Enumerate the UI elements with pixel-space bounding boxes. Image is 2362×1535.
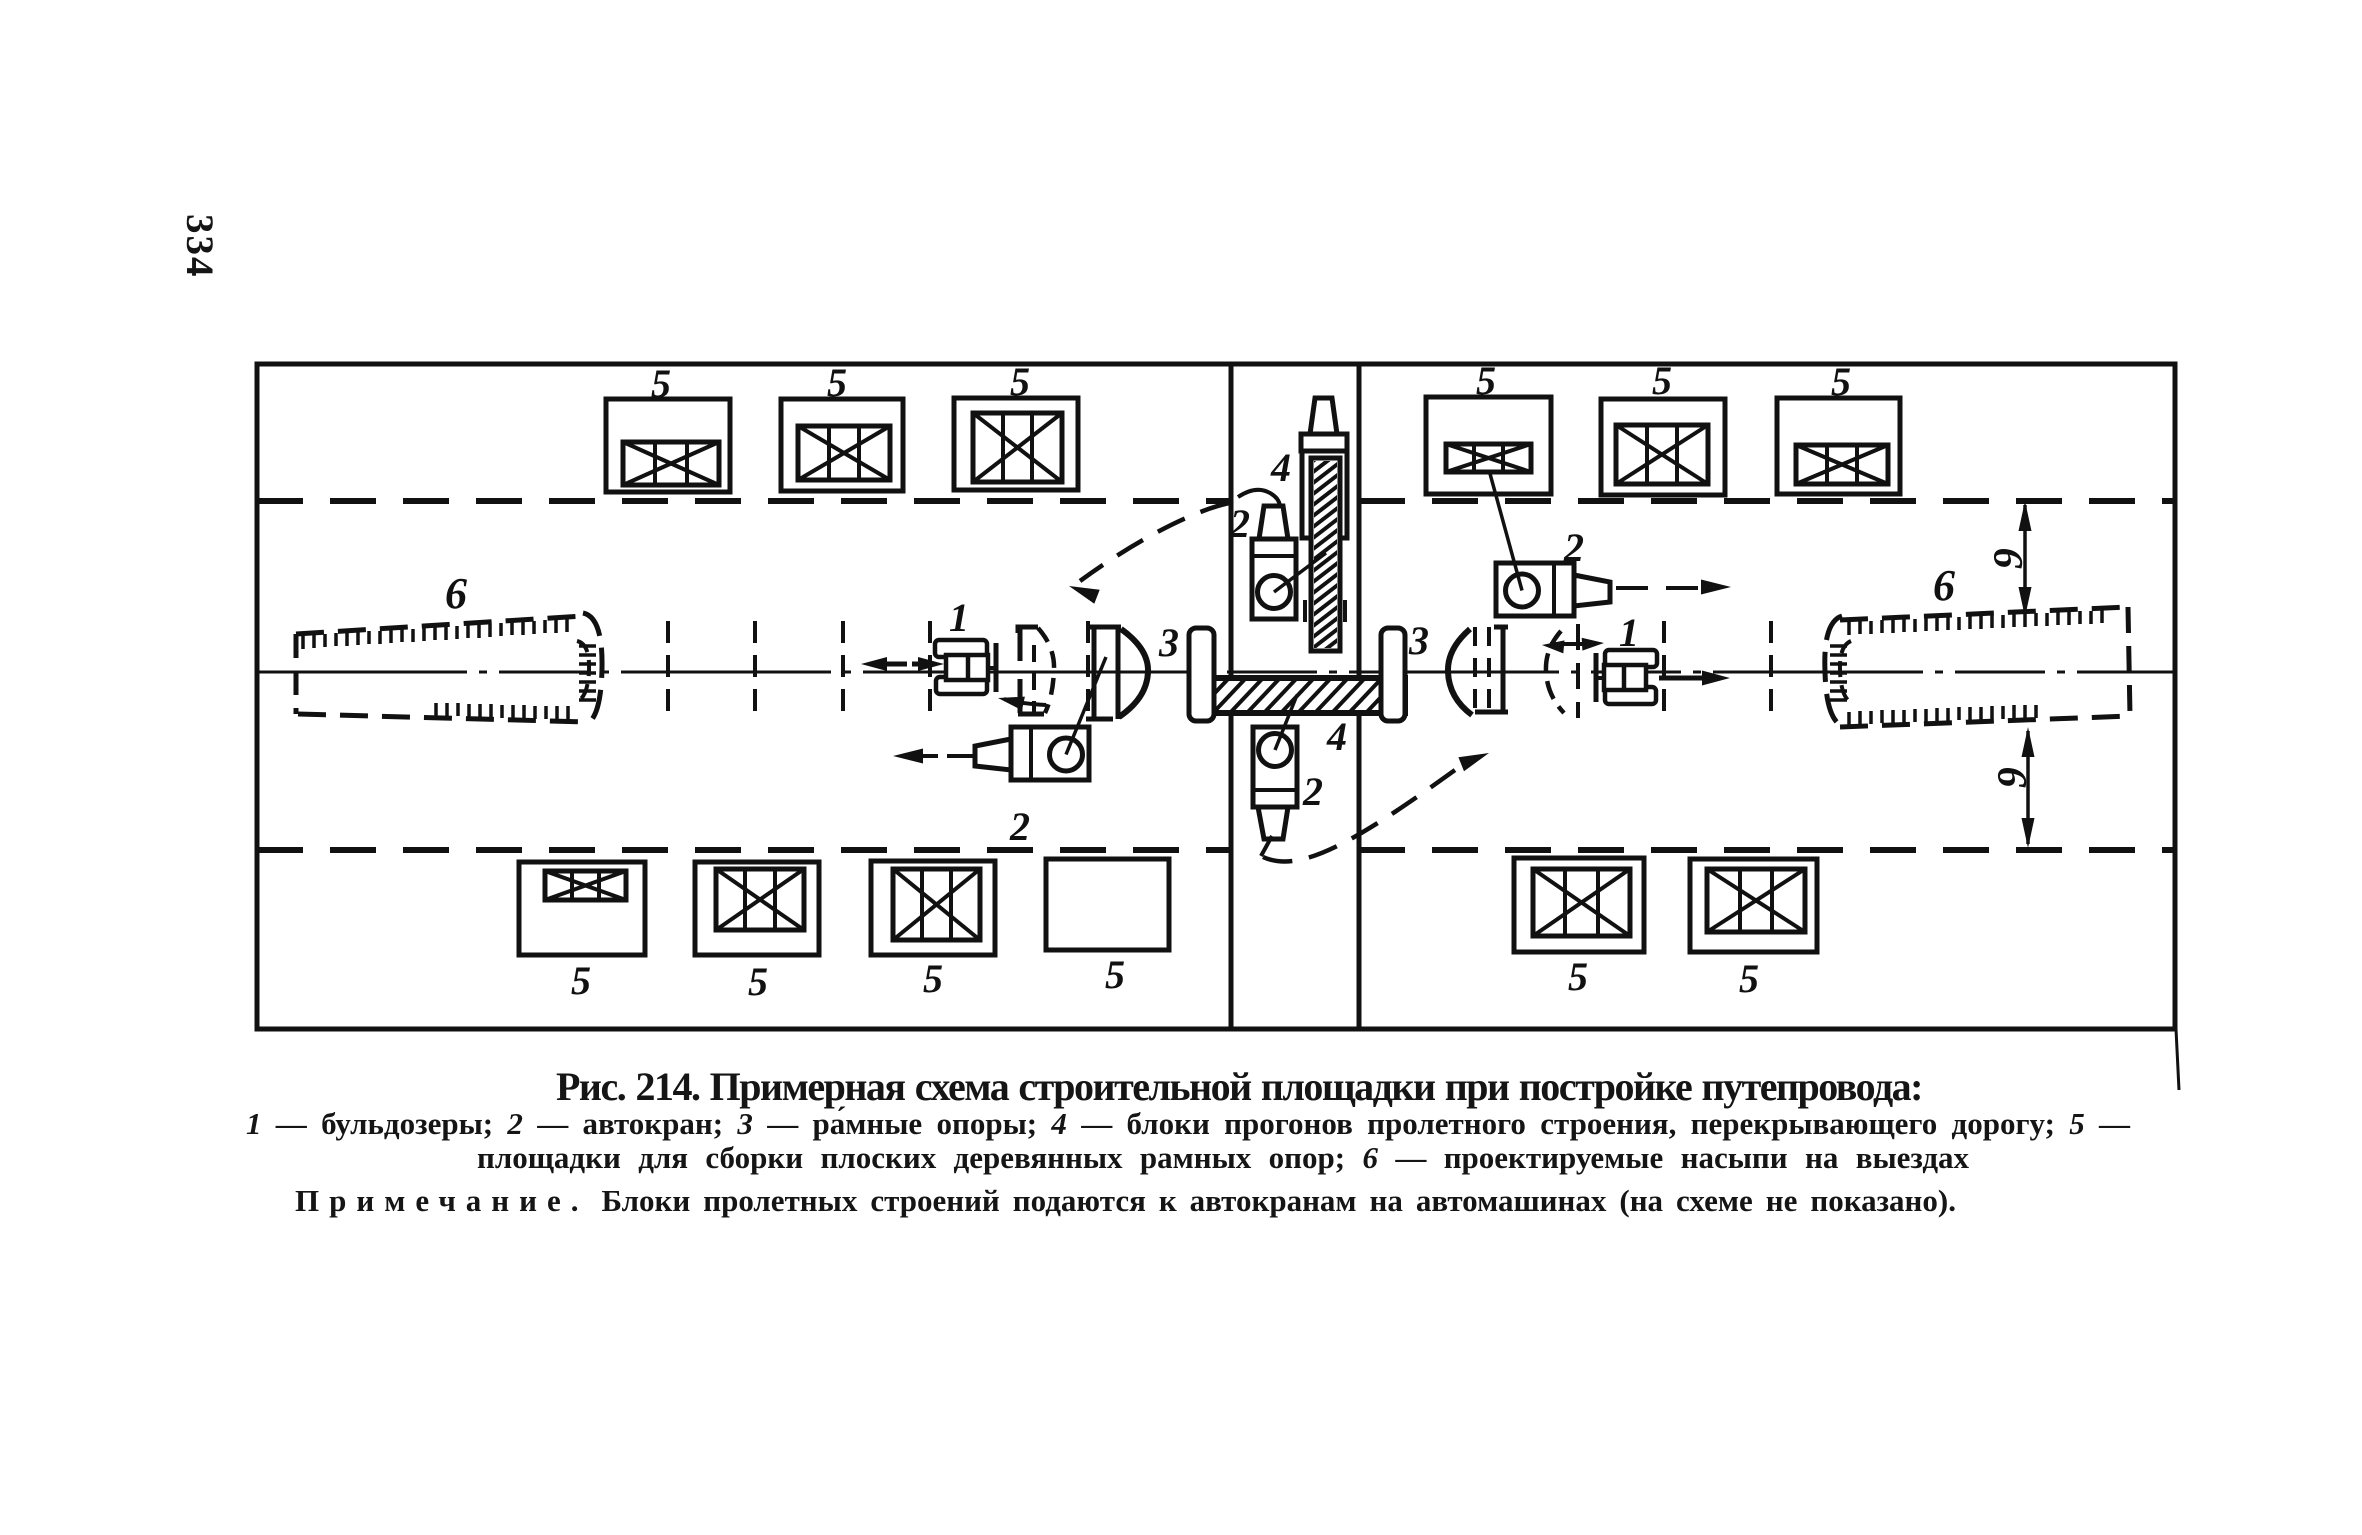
svg-text:5: 5 (1010, 359, 1030, 404)
frame support 3 (left of road) (1189, 628, 1214, 721)
svg-text:4: 4 (1326, 714, 1347, 759)
leader line left crane to support shape (1066, 657, 1106, 755)
assembly pad 5 (top-right 1) (1426, 397, 1551, 494)
road axis centerline dash-dot (257, 671, 2175, 674)
assembly pad 5 (top-right 2) (1601, 399, 1725, 495)
station tick 5 (1086, 621, 1090, 712)
station tick 2 (753, 621, 757, 712)
svg-text:5: 5 (1568, 954, 1588, 999)
main road top edge dashed (left segment) (257, 498, 1231, 504)
note line (295, 1183, 1956, 1219)
svg-text:3: 3 (1408, 618, 1429, 663)
svg-text:6: 6 (1984, 548, 2030, 569)
crossing road right edge (wire) (1357, 364, 1362, 1029)
svg-text:4: 4 (1270, 445, 1291, 490)
dimension arrow 6 m (upper) (2019, 501, 2032, 617)
truck crane 2 (left, pointing left) (975, 727, 1089, 780)
drag arrow to bulldozer (left, hooked) (998, 697, 1046, 711)
bulldozer 1 (right) (1596, 650, 1657, 704)
left bulldozer push arrows (861, 657, 944, 671)
assembly pad 5 (bottom-right 1) (1514, 858, 1644, 952)
svg-text:6: 6 (445, 569, 467, 618)
svg-text:2: 2 (1009, 804, 1030, 849)
svg-text:5: 5 (827, 360, 847, 405)
svg-text:5: 5 (1831, 359, 1851, 404)
main road bottom edge dashed (left segment) (257, 847, 1231, 853)
lower middle crane hook tail (1261, 836, 1272, 856)
frame right edge overshoot (2176, 1029, 2179, 1090)
frame support 3 (right of road) (1381, 628, 1405, 721)
main road bottom edge dashed (right segment) (1359, 847, 2175, 853)
svg-text:5: 5 (923, 956, 943, 1001)
svg-text:3: 3 (1158, 620, 1179, 665)
embankment 6 (right exit ramp, dashed with hachures) (1825, 607, 2130, 727)
svg-text:5: 5 (571, 958, 591, 1003)
girder block 4 (transverse beam across road) (1178, 678, 1450, 714)
crossing road left edge (wire) (1229, 364, 1234, 1029)
embankment 6 (left exit ramp, dashed with hachures) (296, 613, 602, 725)
right crane travel arrow (dashed) (1616, 580, 1731, 595)
figure caption title (556, 1063, 1922, 1110)
svg-text:5: 5 (748, 959, 768, 1004)
left crane travel arrow (893, 749, 975, 764)
page number 334 (rotated) (177, 214, 222, 279)
support being erected (right large, solid D-shape mirrored) (1448, 627, 1508, 715)
girder block 4 (vertical, on crane over road) (1300, 398, 1352, 746)
svg-text:1: 1 (949, 595, 969, 640)
flip double arrow (right) (1542, 638, 1604, 654)
assembly pad 5 (top-right 3) (1777, 398, 1900, 494)
support being tilted (right small, dashed crescent) (1546, 624, 1578, 718)
assembly pad 5 (top-left 3) (954, 398, 1078, 490)
main road top edge dashed (right segment) (1359, 498, 2175, 504)
leader line right crane to pad block (1489, 470, 1522, 591)
truck crane 2 (middle upper, pointing up) (1252, 506, 1296, 619)
assembly pad 5 (bottom-right 2) (1690, 859, 1817, 952)
svg-text:5: 5 (1739, 956, 1759, 1001)
assembly pad 5 (bottom-left 3) (871, 861, 995, 955)
leader line upper middle crane to block 4 (1274, 553, 1326, 592)
assembly pad 5 (top-left 1) (606, 399, 730, 492)
svg-text:2: 2 (1563, 525, 1584, 570)
svg-text:2: 2 (1229, 501, 1250, 546)
svg-text:6: 6 (1933, 561, 1955, 610)
truck crane 2 (right, pointing right) (1496, 563, 1610, 616)
dimension arrow 6 m (lower) (2022, 727, 2035, 848)
svg-text:5: 5 (1652, 358, 1672, 403)
legend line 1 (246, 1106, 2130, 1142)
assembly pad 5 (top-left 2) (781, 399, 903, 491)
leader line lower middle crane to beam 4 (1275, 695, 1297, 750)
station tick 7 (1769, 621, 1773, 712)
station tick 4 (928, 621, 932, 712)
svg-text:1: 1 (1619, 610, 1639, 655)
assembly pad 5 (bottom-left 4, empty) (1046, 859, 1169, 950)
svg-text:2: 2 (1302, 769, 1323, 814)
svg-text:6: 6 (1988, 767, 2034, 788)
support being erected (left, dashed D-shape) (1018, 627, 1054, 714)
support being erected (left large, solid D-shape) (1086, 627, 1148, 719)
hook curve road line to upper crane boom (1238, 490, 1280, 506)
truck crane 2 (middle lower, pointing down) (1253, 727, 1297, 839)
site boundary frame (257, 364, 2175, 1029)
station tick 6 (1662, 621, 1666, 712)
station tick 3 (841, 621, 845, 712)
assembly pad 5 (bottom-left 2) (695, 862, 819, 955)
legend line 2 (477, 1140, 1969, 1176)
station tick 1 (666, 621, 670, 712)
bulldozer 1 (left) (935, 640, 996, 694)
right bulldozer push arrow (1659, 671, 1730, 686)
svg-text:5: 5 (1476, 358, 1496, 403)
assembly pad 5 (bottom-left 1) (519, 862, 645, 955)
svg-text:5: 5 (651, 361, 671, 406)
crane relocation dashed arrow (lower right) (1263, 753, 1489, 862)
svg-text:5: 5 (1105, 952, 1125, 997)
crane relocation dashed arrow (upper left) (1069, 503, 1229, 604)
